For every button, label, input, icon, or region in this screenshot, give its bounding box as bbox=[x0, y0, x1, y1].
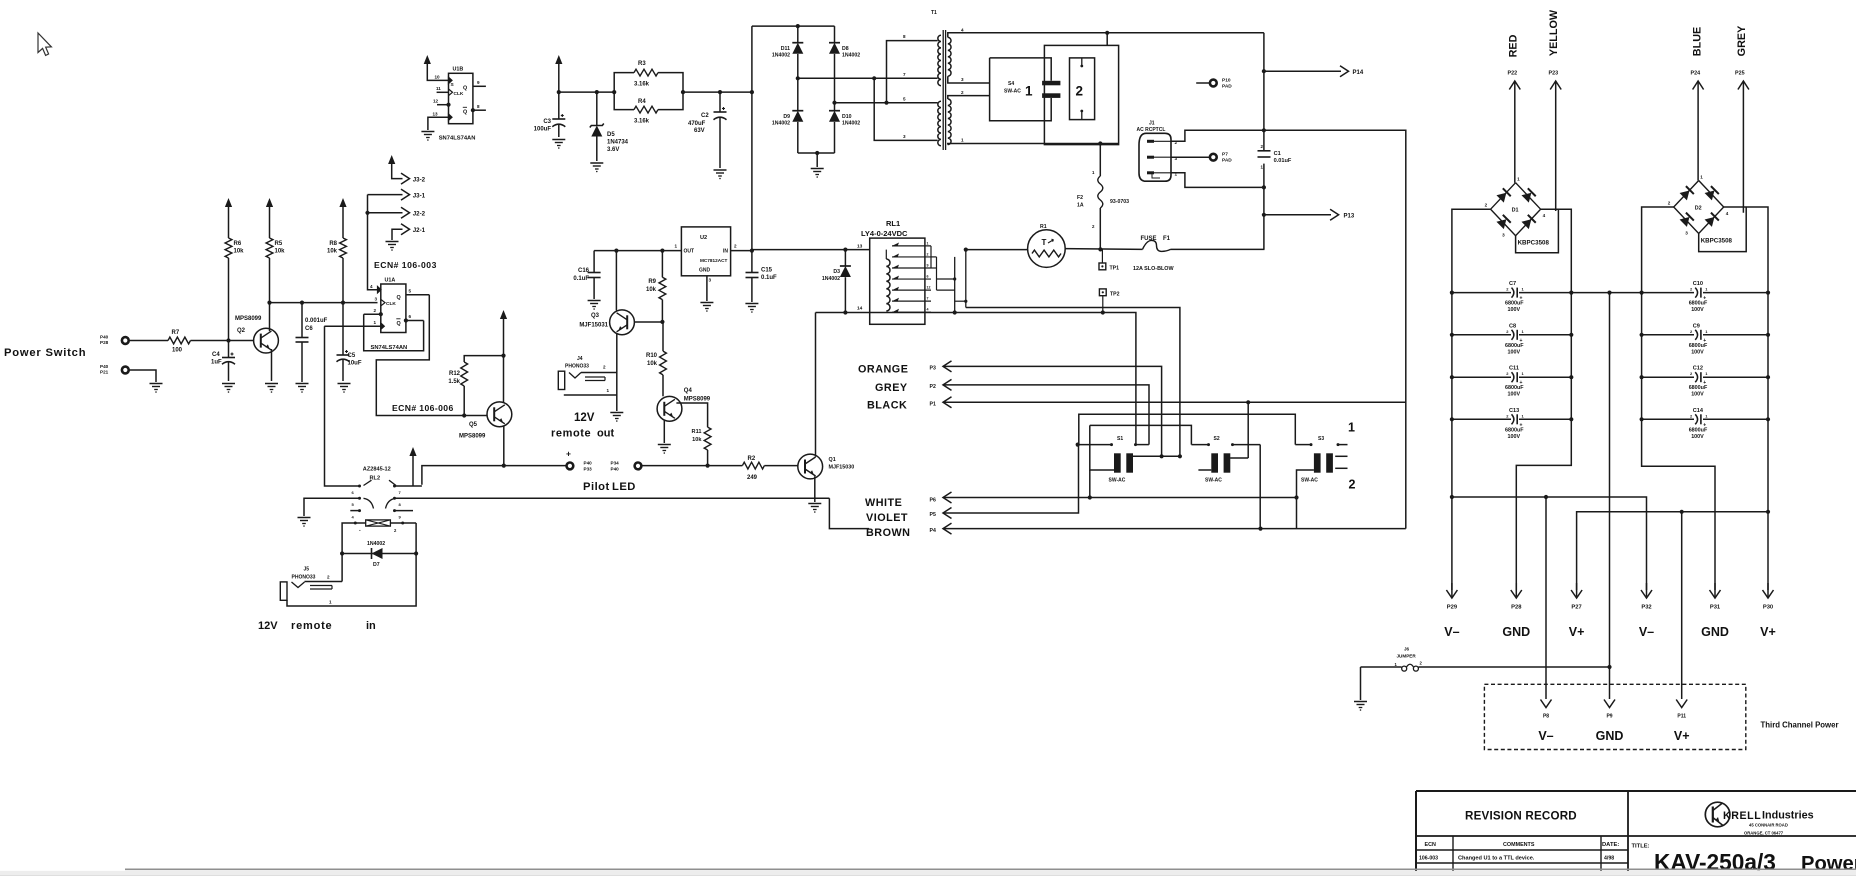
svg-text:P33: P33 bbox=[584, 467, 593, 472]
svg-text:1N4002: 1N4002 bbox=[842, 121, 860, 127]
switch S2 bbox=[1205, 436, 1230, 484]
svg-text:10k: 10k bbox=[647, 361, 658, 367]
label S4 section 1 bbox=[1025, 84, 1033, 99]
svg-text:9: 9 bbox=[927, 264, 929, 268]
U1A pin1 wire bbox=[324, 320, 384, 329]
svg-text:P23: P23 bbox=[1549, 71, 1559, 77]
svg-text:6800uF: 6800uF bbox=[1689, 427, 1708, 433]
label WHITE bbox=[865, 497, 902, 509]
svg-text:470uF: 470uF bbox=[688, 121, 706, 127]
svg-text:S4: S4 bbox=[1008, 81, 1014, 87]
label VIOLET bbox=[866, 512, 908, 524]
svg-text:IN: IN bbox=[723, 249, 728, 255]
bridge rectifier D2 bbox=[1668, 175, 1733, 245]
switch S3 contacts bbox=[1337, 443, 1348, 446]
wire S2 left bar stub bbox=[1198, 469, 1211, 471]
label Pilot LED bbox=[583, 481, 636, 493]
svg-text:ECN# 106-003: ECN# 106-003 bbox=[374, 260, 437, 270]
label GREY (rotated) bbox=[1736, 25, 1748, 56]
svg-text:100V: 100V bbox=[1508, 434, 1521, 440]
svg-text:MC7812ACT: MC7812ACT bbox=[700, 258, 727, 263]
svg-text:10k: 10k bbox=[327, 249, 338, 255]
connector P13 bbox=[1264, 209, 1355, 220]
svg-text:P30: P30 bbox=[1763, 605, 1773, 611]
svg-text:45 CONNAIR ROAD: 45 CONNAIR ROAD bbox=[1749, 823, 1788, 828]
wire R1 to F1 bbox=[1065, 247, 1142, 251]
svg-text:R12: R12 bbox=[449, 371, 461, 377]
svg-text:4: 4 bbox=[961, 28, 964, 33]
svg-text:2: 2 bbox=[734, 244, 737, 249]
wire R3R4 to bridge rail bbox=[681, 90, 754, 94]
fuse F2 bbox=[1077, 141, 1129, 249]
svg-text:8: 8 bbox=[477, 104, 480, 109]
connector P2 (grey) bbox=[930, 379, 1150, 444]
svg-text:Changed U1 to a TTL device.: Changed U1 to a TTL device. bbox=[1458, 856, 1535, 862]
connector P14 bbox=[1264, 66, 1364, 77]
wire bridge bottom bbox=[798, 151, 835, 155]
ground (C4) bbox=[222, 384, 235, 393]
IC U1A box bbox=[381, 278, 406, 333]
svg-text:V+: V+ bbox=[1569, 625, 1585, 639]
svg-text:in: in bbox=[366, 620, 376, 632]
relay RL2 contact row2 bbox=[304, 497, 829, 516]
svg-text:D3: D3 bbox=[833, 269, 840, 275]
svg-text:Q3: Q3 bbox=[591, 313, 600, 319]
connector P22 bbox=[1508, 71, 1521, 183]
wire bottom rail (Q1 collector to S-block) bbox=[816, 310, 1136, 444]
svg-text:V–: V– bbox=[1444, 625, 1459, 639]
svg-text:CLK: CLK bbox=[386, 301, 396, 307]
wire pilot LED line left bbox=[422, 466, 566, 485]
wire T1 sec pin1 bbox=[948, 138, 1119, 145]
svg-text:D11: D11 bbox=[781, 46, 790, 52]
wire P27 stem bbox=[1577, 419, 1771, 590]
svg-text:WHITE: WHITE bbox=[865, 497, 902, 509]
label SN74LS74AN (U1B) bbox=[439, 136, 476, 142]
svg-text:P6: P6 bbox=[930, 498, 936, 504]
svg-text:Q: Q bbox=[397, 295, 401, 301]
svg-text:SW-AC: SW-AC bbox=[1109, 478, 1126, 484]
relay RL2 coil row bbox=[342, 520, 416, 554]
svg-text:TP2: TP2 bbox=[1110, 292, 1120, 298]
wire P28 stem bbox=[1516, 419, 1571, 590]
svg-text:1uF: 1uF bbox=[211, 360, 222, 366]
label Power Switch bbox=[4, 347, 86, 359]
svg-text:remote: remote bbox=[291, 620, 332, 632]
svg-text:C7: C7 bbox=[1509, 281, 1516, 287]
svg-text:MPS8099: MPS8099 bbox=[459, 434, 486, 440]
label KAV-250a/3 Power bbox=[1654, 849, 1856, 875]
relay RL1 box bbox=[857, 238, 925, 324]
wire bridge mid (T1 pin7) bbox=[796, 76, 938, 80]
svg-text:PHONO33: PHONO33 bbox=[565, 364, 589, 370]
svg-text:12V: 12V bbox=[258, 620, 278, 632]
jumper J6 bbox=[1361, 647, 1610, 672]
relay RL2 labels bbox=[363, 467, 391, 482]
U1B pin13 wire bbox=[428, 112, 452, 131]
svg-text:P1: P1 bbox=[930, 402, 936, 408]
svg-text:6800uF: 6800uF bbox=[1505, 385, 1524, 391]
label P29 bbox=[1447, 605, 1458, 611]
label P28 bbox=[1511, 605, 1522, 611]
svg-text:SW-AC: SW-AC bbox=[1004, 89, 1021, 95]
switch S1 contacts bbox=[1076, 443, 1149, 447]
wire P29 stem bbox=[1450, 419, 1454, 590]
svg-text:12A SLO-BLOW: 12A SLO-BLOW bbox=[1133, 266, 1174, 272]
svg-text:3.16k: 3.16k bbox=[634, 82, 650, 88]
U1B Q pin9 bbox=[463, 80, 486, 92]
svg-text:P13: P13 bbox=[1344, 214, 1355, 220]
capacitor C3 bbox=[534, 92, 566, 137]
svg-text:MJF15030: MJF15030 bbox=[829, 465, 855, 471]
capacitor C12 bbox=[1689, 366, 1709, 398]
svg-text:P3: P3 bbox=[930, 366, 936, 372]
wire Q4 emitter bbox=[658, 420, 671, 454]
wire J6 to ground bbox=[1360, 667, 1362, 700]
switch S4 contact bars bbox=[1042, 81, 1060, 98]
label ECN col bbox=[1425, 842, 1436, 848]
transformer T1 primary upper bbox=[938, 35, 941, 85]
svg-text:63V: 63V bbox=[694, 128, 705, 134]
switch S3 bbox=[1301, 436, 1333, 484]
svg-text:C16: C16 bbox=[578, 268, 590, 274]
wire J5 sleeve to D7 box bbox=[287, 554, 416, 607]
wire pad P21 to ground bbox=[130, 370, 157, 382]
resistor R2 bbox=[742, 456, 764, 481]
wire S3 left bar bbox=[1297, 470, 1314, 529]
svg-text:0.1uF: 0.1uF bbox=[761, 275, 777, 281]
resistor R7 bbox=[168, 330, 191, 354]
svg-text:D8: D8 bbox=[842, 46, 849, 52]
ground (C6) bbox=[296, 384, 309, 393]
label P11 bbox=[1677, 714, 1686, 720]
zener D5 bbox=[590, 92, 629, 161]
U1B power arrow bbox=[424, 55, 449, 80]
U1B pin10 bbox=[435, 75, 455, 89]
svg-text:REVISION RECORD: REVISION RECORD bbox=[1465, 810, 1577, 823]
svg-text:PHONO33: PHONO33 bbox=[292, 575, 316, 581]
wire RL2 row2 tail bbox=[829, 498, 869, 528]
label COMMENTS col bbox=[1503, 842, 1535, 848]
svg-text:BLUE: BLUE bbox=[1692, 27, 1704, 56]
ground (bridge) bbox=[811, 153, 824, 178]
svg-text:4: 4 bbox=[1726, 211, 1729, 216]
wire T1 pin8 bracket bbox=[887, 41, 938, 103]
relay RL1 contacts bbox=[892, 241, 931, 312]
U2 pin3 ground bbox=[700, 276, 713, 312]
wire P30 stem bbox=[1767, 512, 1769, 590]
fuse F1 bbox=[1133, 236, 1174, 272]
svg-text:10k: 10k bbox=[234, 249, 245, 255]
capacitor C14 bbox=[1689, 408, 1709, 440]
svg-text:10k: 10k bbox=[646, 287, 657, 293]
svg-text:ECN# 106-006: ECN# 106-006 bbox=[392, 403, 454, 413]
svg-text:100V: 100V bbox=[1691, 307, 1704, 313]
svg-text:GND: GND bbox=[1502, 625, 1530, 639]
svg-text:GND: GND bbox=[1701, 625, 1729, 639]
svg-text:P10: P10 bbox=[1222, 78, 1231, 84]
svg-text:2: 2 bbox=[1485, 203, 1488, 208]
svg-text:C15: C15 bbox=[761, 268, 773, 274]
wire RL1 to R1 bbox=[966, 249, 1028, 251]
resistor R4 (parallel box bottom) bbox=[614, 92, 683, 124]
svg-text:RL1: RL1 bbox=[886, 219, 900, 228]
ground (J2-1) bbox=[386, 242, 399, 251]
pad pilot P34/P40 bbox=[611, 461, 642, 472]
wire D2 pin3 loop bbox=[1699, 207, 1747, 252]
svg-text:4: 4 bbox=[1543, 213, 1546, 218]
svg-text:P2: P2 bbox=[930, 384, 936, 390]
wire T1 sec pin3 bbox=[948, 76, 990, 83]
svg-text:100V: 100V bbox=[1691, 392, 1704, 398]
wire D1 pin4 to right rail bbox=[1541, 209, 1572, 292]
svg-text:SN74LS74AN: SN74LS74AN bbox=[439, 136, 476, 142]
svg-text:4/98: 4/98 bbox=[1604, 856, 1614, 862]
label YELLOW (rotated) bbox=[1548, 9, 1560, 56]
node Q2 base junction bbox=[226, 338, 230, 342]
wire big loop right bbox=[1265, 130, 1406, 528]
label V– (P32) bbox=[1639, 625, 1654, 639]
label P9 bbox=[1606, 714, 1612, 720]
connector J1 AC receptacle bbox=[1137, 121, 1178, 182]
label V+ (P11) bbox=[1674, 729, 1690, 743]
wire R12 feed bbox=[464, 356, 503, 362]
svg-text:F1: F1 bbox=[1163, 236, 1171, 242]
wire Q5 collector bbox=[503, 356, 505, 403]
svg-text:YELLOW: YELLOW bbox=[1548, 9, 1560, 56]
wire CLK line bbox=[270, 302, 378, 304]
label ECN# 106-006 bbox=[392, 403, 454, 413]
svg-text:P14: P14 bbox=[1353, 70, 1364, 76]
svg-text:6: 6 bbox=[409, 314, 412, 319]
wire cap row1 (C7/C10 common) bbox=[1450, 291, 1770, 295]
wire R7 to Q2 base bbox=[191, 340, 254, 342]
svg-text:Power Switch: Power Switch bbox=[4, 347, 86, 359]
label GND (P31) bbox=[1701, 625, 1729, 639]
svg-text:10: 10 bbox=[435, 75, 441, 80]
wire cap row4 right bank bbox=[1640, 417, 1771, 421]
svg-text:12: 12 bbox=[433, 99, 439, 104]
svg-text:ECN: ECN bbox=[1425, 842, 1436, 848]
transformer T1 secondary lower bbox=[948, 99, 951, 145]
svg-text:Q2: Q2 bbox=[237, 328, 246, 334]
svg-text:R10: R10 bbox=[646, 353, 658, 359]
switch S4 outer box bbox=[1044, 45, 1118, 144]
relay RL2 contact row1 bbox=[325, 326, 422, 495]
wire S2 right bar stub bbox=[1230, 402, 1248, 458]
label RED (rotated) bbox=[1508, 34, 1520, 57]
svg-text:4: 4 bbox=[927, 308, 929, 312]
svg-text:3: 3 bbox=[1502, 233, 1505, 238]
label ECN# 106-003 bbox=[374, 260, 437, 270]
wire F2 junction label bbox=[0, 0, 1, 1]
resistor R5 bbox=[266, 198, 285, 303]
wire U2 out rail to RL1 bbox=[752, 248, 870, 252]
diode D3 bbox=[822, 250, 851, 313]
capacitor C11 bbox=[1505, 366, 1525, 398]
U1A Q pin5 wire bbox=[397, 289, 430, 302]
svg-text:P28: P28 bbox=[100, 340, 109, 345]
svg-text:S1: S1 bbox=[1117, 436, 1123, 442]
ECN 106-006 loop (U1A Q to Q5 base) bbox=[376, 295, 464, 416]
label 45 CONNAIR ROAD bbox=[1749, 823, 1788, 828]
svg-text:J2-1: J2-1 bbox=[413, 227, 426, 234]
connector P27 arrow bbox=[1571, 583, 1582, 598]
wire cap row3 right bank bbox=[1640, 375, 1771, 379]
transistor Q4 bbox=[657, 388, 711, 421]
resistor R6 bbox=[225, 198, 244, 341]
svg-text:3: 3 bbox=[1685, 231, 1688, 236]
svg-text:GREY: GREY bbox=[1736, 25, 1748, 56]
label GREY bbox=[875, 382, 908, 394]
svg-text:J4: J4 bbox=[577, 356, 583, 362]
svg-text:U1B: U1B bbox=[453, 67, 464, 73]
svg-text:P28: P28 bbox=[1511, 605, 1522, 611]
svg-text:1: 1 bbox=[675, 244, 678, 249]
svg-text:C10: C10 bbox=[1693, 281, 1703, 287]
svg-text:D7: D7 bbox=[373, 562, 380, 568]
svg-text:2: 2 bbox=[1076, 84, 1084, 99]
label V– (P29) bbox=[1444, 625, 1459, 639]
svg-text:P11: P11 bbox=[1677, 714, 1686, 720]
wire Q5 base bbox=[464, 415, 487, 417]
pad pilot + P40/P33 bbox=[566, 449, 592, 472]
svg-text:2: 2 bbox=[961, 90, 964, 95]
relay RL1 coil bbox=[886, 250, 890, 311]
diode D10 bbox=[829, 103, 860, 153]
label P32 bbox=[1641, 605, 1651, 611]
svg-text:249: 249 bbox=[747, 475, 758, 481]
svg-text:PAD: PAD bbox=[1222, 158, 1232, 164]
svg-text:GND: GND bbox=[699, 268, 711, 274]
resistor R3 (parallel box top) bbox=[614, 61, 683, 92]
switch S1 bbox=[1109, 436, 1134, 484]
node R5/CLK bbox=[267, 301, 271, 305]
label Third Channel Power bbox=[1761, 721, 1839, 730]
svg-text:C14: C14 bbox=[1693, 408, 1704, 414]
label P31 bbox=[1710, 605, 1721, 611]
label REVISION RECORD bbox=[1465, 810, 1577, 823]
svg-text:P25: P25 bbox=[1735, 71, 1745, 77]
pad P7 bbox=[1171, 152, 1232, 164]
svg-text:U1A: U1A bbox=[385, 278, 396, 284]
svg-text:6800uF: 6800uF bbox=[1689, 343, 1708, 349]
wire T1 sec pin2 bbox=[948, 90, 990, 99]
svg-text:3.6V: 3.6V bbox=[607, 147, 619, 153]
svg-text:JUMPER: JUMPER bbox=[1397, 654, 1417, 659]
svg-text:P7: P7 bbox=[1222, 152, 1228, 158]
svg-text:P21: P21 bbox=[100, 369, 109, 374]
ground (C2) bbox=[714, 170, 727, 179]
wire P28 to R7 bbox=[130, 340, 169, 342]
node S4 top stub bbox=[1105, 31, 1109, 46]
svg-text:10uF: 10uF bbox=[348, 361, 362, 367]
connector P3 (orange) bbox=[930, 361, 1162, 456]
svg-text:1: 1 bbox=[374, 320, 377, 325]
label T1 bbox=[931, 10, 937, 16]
svg-text:1N4002: 1N4002 bbox=[772, 121, 790, 127]
svg-text:100uF: 100uF bbox=[534, 127, 552, 133]
svg-text:Q: Q bbox=[463, 86, 467, 92]
wire S-bracket upper bbox=[1079, 414, 1296, 444]
capacitor C6 bbox=[296, 303, 328, 382]
resistor R12 bbox=[448, 362, 467, 416]
svg-text:LED: LED bbox=[612, 481, 636, 493]
connector J4 phono bbox=[558, 356, 617, 390]
svg-text:R1: R1 bbox=[1040, 224, 1047, 230]
wire S2 left stub bbox=[1191, 443, 1210, 446]
svg-text:MPS8099: MPS8099 bbox=[684, 397, 711, 403]
wire right rail column2 bbox=[1767, 293, 1769, 420]
svg-text:R5: R5 bbox=[275, 241, 283, 247]
svg-text:1N4002: 1N4002 bbox=[772, 53, 790, 59]
wire S3 right stubs bbox=[1335, 456, 1347, 468]
svg-text:6800uF: 6800uF bbox=[1505, 301, 1524, 307]
wire Q3 emitter / J4 sleeve bbox=[564, 334, 617, 411]
wire P9 stem (mid vertical) bbox=[1607, 293, 1611, 699]
svg-text:V+: V+ bbox=[1674, 729, 1690, 743]
diode D9 bbox=[772, 78, 803, 153]
svg-text:D10: D10 bbox=[842, 114, 852, 120]
svg-text:KBPC3508: KBPC3508 bbox=[1701, 238, 1733, 245]
wire R5 to Q2 collector bbox=[269, 303, 271, 332]
label DATE col bbox=[1602, 842, 1619, 848]
diode D7 row bbox=[340, 541, 418, 568]
svg-text:4: 4 bbox=[370, 284, 373, 289]
connector P9 arrow bbox=[1604, 700, 1615, 708]
wire Q3 collector bbox=[615, 251, 617, 311]
wire V- cross link bbox=[1452, 495, 1647, 590]
svg-text:100V: 100V bbox=[1508, 349, 1521, 355]
node R12/Q5 base bbox=[462, 413, 466, 417]
svg-text:Industries: Industries bbox=[1762, 810, 1814, 822]
svg-text:SN74LS74AN: SN74LS74AN bbox=[371, 345, 408, 351]
svg-text:6800uF: 6800uF bbox=[1689, 385, 1708, 391]
label BLUE (rotated) bbox=[1692, 27, 1704, 56]
pad P40/P21 bbox=[100, 364, 129, 374]
svg-text:C6: C6 bbox=[305, 326, 313, 332]
svg-text:P40: P40 bbox=[611, 467, 620, 472]
label ORANGE bbox=[858, 364, 908, 376]
svg-text:Third Channel Power: Third Channel Power bbox=[1761, 721, 1839, 730]
svg-text:P24: P24 bbox=[1691, 71, 1701, 77]
svg-text:C11: C11 bbox=[1509, 366, 1519, 372]
svg-text:Q: Q bbox=[397, 321, 401, 327]
svg-text:2: 2 bbox=[603, 365, 606, 370]
node C6/CLK bbox=[300, 301, 304, 305]
svg-text:2: 2 bbox=[327, 575, 330, 580]
svg-text:SW-AC: SW-AC bbox=[1301, 478, 1318, 484]
capacitor C7 bbox=[1505, 281, 1525, 313]
resistor R8 bbox=[327, 198, 347, 303]
ground (U1B pin13) bbox=[421, 132, 434, 141]
svg-text:TP1: TP1 bbox=[1110, 266, 1120, 272]
power arrow (Q5) bbox=[500, 310, 507, 358]
wire D1 pin3 loop bbox=[1516, 209, 1559, 253]
diode D8 bbox=[829, 26, 860, 103]
wire cap row2 left bank bbox=[1450, 333, 1574, 337]
capacitor C5 bbox=[337, 303, 362, 381]
label S4 bbox=[1004, 81, 1021, 95]
svg-text:93-0703: 93-0703 bbox=[1110, 199, 1129, 205]
svg-text:C13: C13 bbox=[1509, 408, 1519, 414]
svg-text:R4: R4 bbox=[638, 99, 646, 105]
svg-text:7: 7 bbox=[927, 297, 929, 301]
svg-text:1A: 1A bbox=[1077, 203, 1084, 209]
label KRELL Industries bbox=[1723, 810, 1814, 823]
svg-text:TITLE:: TITLE: bbox=[1632, 844, 1650, 850]
svg-text:BROWN: BROWN bbox=[866, 527, 910, 539]
